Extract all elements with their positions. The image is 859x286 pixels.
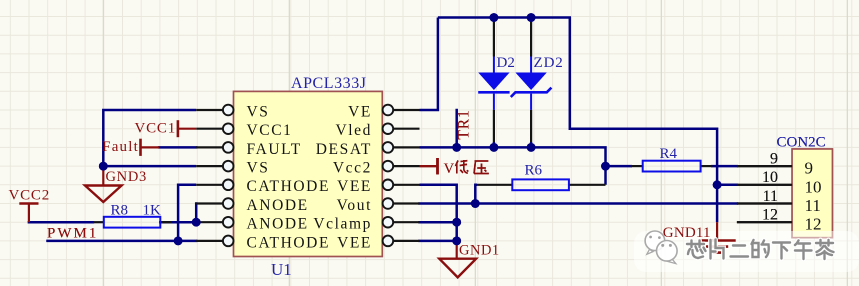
resistor R6 <box>477 184 512 186</box>
power port V-lowvolt (bar) <box>436 158 439 174</box>
U1 pin 2 VCC1 (left) <box>196 128 222 130</box>
U1 pin 8 CATHODE (left) <box>196 240 222 242</box>
watermark WeChat logo <box>645 231 677 264</box>
junction DESAT D2 <box>490 143 499 152</box>
svg-text:D2: D2 <box>497 55 515 71</box>
junction DESAT ZD2 <box>527 143 536 152</box>
svg-text:Vout: Vout <box>337 197 372 214</box>
power port Fault (bar) <box>139 139 142 156</box>
wire VEE pin 8 stub <box>420 240 457 243</box>
svg-text:VCC1: VCC1 <box>247 122 293 139</box>
svg-text:R4: R4 <box>660 146 678 162</box>
svg-text:Vcc2: Vcc2 <box>333 160 372 177</box>
CON2C pin 12 <box>737 221 792 223</box>
svg-text:VS: VS <box>247 160 270 177</box>
U1 pin 13 Vcc2 (right) <box>393 165 419 167</box>
junction DESAT TR1 <box>452 143 461 152</box>
diode D2 <box>493 20 495 57</box>
svg-text:10: 10 <box>762 169 778 186</box>
wire DESAT row to R4 junction <box>420 147 606 184</box>
svg-text:Fault: Fault <box>102 139 139 155</box>
wire VS pins 1-4 left loop <box>103 110 196 166</box>
CON2C pin 10 <box>737 184 792 186</box>
junction R8/ANODE node <box>192 218 201 227</box>
V低压 label CJK glyphs <box>456 160 489 174</box>
svg-text:12: 12 <box>805 215 822 234</box>
wire top rail to right drop <box>438 18 717 223</box>
svg-text:12: 12 <box>762 207 778 224</box>
op-amp U1 body APCL333J <box>234 91 383 256</box>
watermark panel <box>634 231 859 272</box>
svg-text:11: 11 <box>763 188 778 205</box>
svg-text:DESAT: DESAT <box>316 141 372 158</box>
junction DESAT ZD2 <box>527 143 536 152</box>
power port GND3 (arrow) <box>102 166 104 185</box>
svg-text:V: V <box>444 161 455 177</box>
junction CON pin10 node <box>713 180 722 189</box>
U1 pin 1 VS (left) <box>196 109 222 111</box>
junction R4/R6 node <box>601 162 610 171</box>
power port GND11 (power ground bars) <box>716 222 718 240</box>
svg-text:9: 9 <box>770 151 778 168</box>
svg-text:GND11: GND11 <box>663 225 711 241</box>
svg-text:CATHODE: CATHODE <box>247 178 331 195</box>
wire VCC2 to R8 <box>29 221 93 224</box>
CON2C pin 10 <box>737 184 792 186</box>
U1 pin 4 VS (left) <box>196 165 222 167</box>
svg-text:APCL333J: APCL333J <box>291 75 367 92</box>
svg-text:ANODE: ANODE <box>247 216 309 233</box>
resistor R4 <box>631 165 643 167</box>
power port V-lowvolt (bar) <box>436 158 439 174</box>
svg-text:Vclamp: Vclamp <box>313 216 372 233</box>
svg-text:R8: R8 <box>111 203 129 219</box>
U1 pin 9 VEE (right) <box>393 240 419 242</box>
wire Fault stub to FAULT pin <box>159 146 196 149</box>
junction PWM1/CATHODE node <box>174 237 183 246</box>
wire R8 to ANODE pins <box>160 221 196 224</box>
U1 pin 14 DESAT (right) <box>393 146 419 148</box>
junction Vout/R6 node <box>471 199 480 208</box>
wire Vout long run to CON pin 11 <box>420 202 737 205</box>
wire TR1 stub <box>455 110 458 147</box>
U1 pin 15 Vled (right) <box>393 128 419 130</box>
svg-text:1K: 1K <box>143 203 162 219</box>
svg-text:10: 10 <box>805 177 822 196</box>
junction top rail D2 <box>490 13 499 22</box>
svg-text:CATHODE: CATHODE <box>247 234 331 251</box>
svg-text:Vled: Vled <box>335 122 372 139</box>
svg-text:VEE: VEE <box>337 234 372 251</box>
wire PWM1 to CATHODE pin 8 <box>48 240 197 243</box>
CON2C pin 9 <box>737 165 792 167</box>
junction VEE/GND1 node <box>452 237 461 246</box>
CON2C pin 11 <box>737 202 792 204</box>
junction Vclamp node <box>452 218 461 227</box>
wire Vclamp pin 7 stub <box>420 221 457 224</box>
U1 pin 12 VEE (right) <box>393 184 419 186</box>
power port VCC2 (bar) <box>19 202 38 205</box>
wire R4 output to CON pin 9 <box>712 165 737 168</box>
svg-text:R6: R6 <box>525 163 543 179</box>
svg-text:VE: VE <box>348 103 372 120</box>
svg-text:FAULT: FAULT <box>247 141 302 158</box>
svg-text:TR1: TR1 <box>456 109 473 139</box>
connector CON2C body <box>792 149 832 238</box>
junction VS/GND3 node <box>99 162 108 171</box>
svg-text:VCC1: VCC1 <box>134 120 176 136</box>
junction R8/ANODE node <box>192 218 201 227</box>
U1 pin 16 VE (right) <box>393 109 419 111</box>
junction R4/R6 node <box>601 162 610 171</box>
junction VEE/GND1 node <box>452 237 461 246</box>
resistor R8 1K <box>93 221 104 223</box>
zener diode ZD2 <box>530 20 532 57</box>
svg-text:VCC2: VCC2 <box>9 187 51 203</box>
U1 pin 5 CATHODE (left) <box>196 184 222 186</box>
junction DESAT D2 <box>490 143 499 152</box>
svg-text:CON2C: CON2C <box>777 135 826 151</box>
svg-text:ZD2: ZD2 <box>534 55 564 71</box>
junction Vout/R6 node <box>471 199 480 208</box>
junction top rail D2 <box>490 13 499 22</box>
connector CON2C body <box>792 149 832 238</box>
CON2C pin 12 <box>737 221 792 223</box>
wire R6 left to Vout junction <box>475 185 477 204</box>
svg-text:U1: U1 <box>271 260 292 279</box>
svg-text:VEE: VEE <box>337 178 372 195</box>
watermark text 芯片二的下午茶 (hand-drawn glyphs) <box>687 240 834 260</box>
U1 pin 3 FAULT (left) <box>196 146 222 148</box>
wire VEE pin 5 down <box>420 185 457 241</box>
wire PWM1 rise to CATHODE pin 5 <box>178 185 196 241</box>
wire R4 input <box>606 165 631 168</box>
svg-text:VS: VS <box>247 103 270 120</box>
power port VCC1 (bar) <box>177 120 180 137</box>
wire junction to CON pin 10 <box>717 184 737 187</box>
junction top rail ZD2 <box>527 13 536 22</box>
junction Vclamp node <box>452 218 461 227</box>
power port GND1 (arrow) <box>456 241 458 259</box>
V低压 label CJK glyphs <box>456 160 489 174</box>
junction VS/GND3 node <box>99 162 108 171</box>
wire VE pin to top rail <box>420 18 438 111</box>
junction PWM1/CATHODE node <box>174 237 183 246</box>
svg-text:ANODE: ANODE <box>247 197 309 214</box>
junction DESAT TR1 <box>452 143 461 152</box>
svg-text:11: 11 <box>805 196 821 215</box>
junction CON pin10 node <box>713 180 722 189</box>
U1 pin 11 Vout (right) <box>393 202 419 204</box>
svg-text:GND3: GND3 <box>106 169 147 185</box>
junction top rail ZD2 <box>527 13 536 22</box>
U1 pin 7 ANODE (left) <box>196 221 222 223</box>
U1 pin 10 Vclamp (right) <box>393 221 419 223</box>
svg-text:GND1: GND1 <box>459 242 500 258</box>
CON2C pin 9 <box>737 165 792 167</box>
svg-text:PWM1: PWM1 <box>47 226 98 242</box>
svg-text:9: 9 <box>805 159 814 178</box>
wire ANODE pin 6 tie <box>195 204 198 223</box>
CON2C pin 11 <box>737 202 792 204</box>
U1 pin 6 ANODE (left) <box>196 202 222 204</box>
